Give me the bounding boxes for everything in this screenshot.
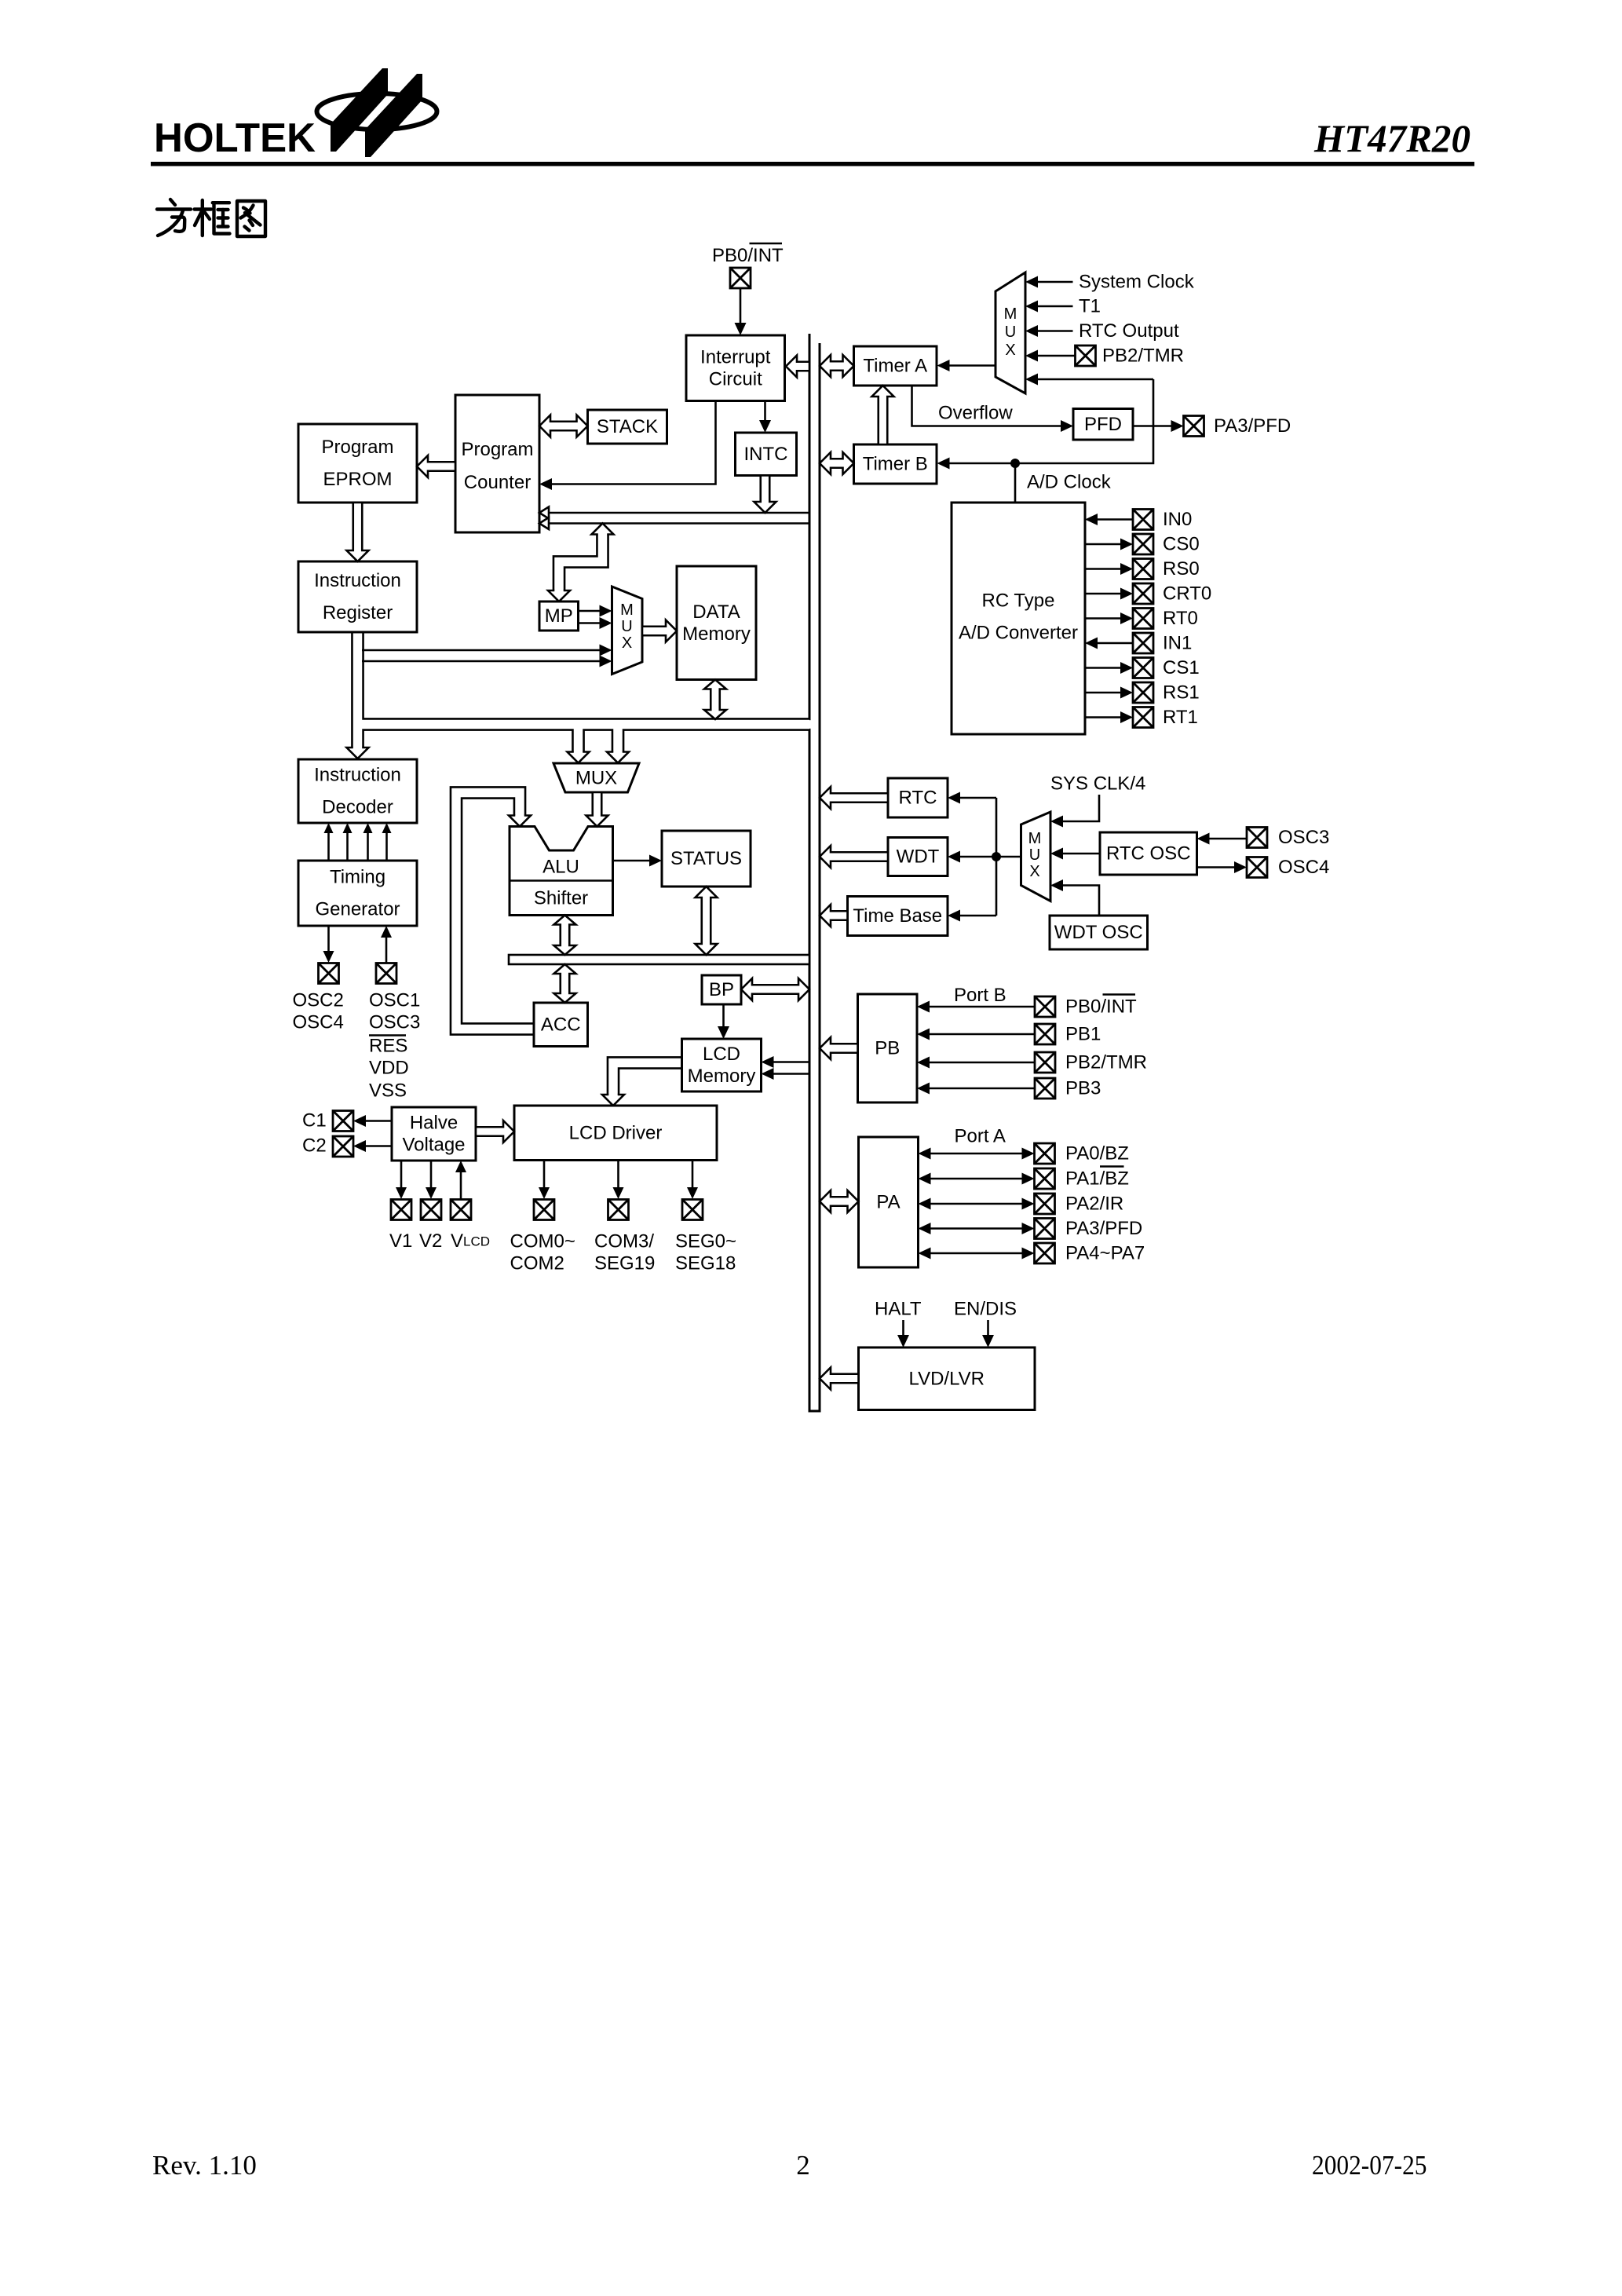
wire clock to Time Base — [948, 910, 996, 922]
wire T1 to mux — [1025, 301, 1073, 313]
wire LCD driver to COM0-COM2 pad — [539, 1161, 550, 1200]
wire halve voltage to C2 pad — [353, 1140, 392, 1152]
block LCD Driver — [514, 1106, 717, 1161]
wire PB2/TMR pad to PB — [917, 1057, 1035, 1069]
title 方框图 — [157, 199, 265, 236]
svg-text:PA: PA — [876, 1192, 900, 1213]
block RC Type A/D Converter — [952, 503, 1085, 734]
ALU and Shifter — [510, 827, 613, 916]
arrowhead line B at Program Counter — [539, 517, 549, 529]
arrow Program Counter to STACK — [539, 415, 588, 437]
svg-text:OSC3: OSC3 — [369, 1012, 420, 1033]
arrow WDT to bus — [820, 846, 888, 868]
pad IN1 — [1133, 633, 1153, 653]
wire RTC OSC to OSC4 pad — [1197, 861, 1248, 873]
svg-text:RS0: RS0 — [1163, 558, 1200, 579]
svg-text:LVD/LVR: LVD/LVR — [909, 1368, 985, 1389]
bus vertical left line — [809, 334, 811, 1412]
svg-text:VLCD: VLCD — [451, 1230, 490, 1252]
wire MP to mux input 1 — [579, 605, 612, 617]
header rule — [151, 162, 1474, 166]
block port B register PB — [858, 994, 918, 1102]
wire A/D converter to RS1 pad — [1085, 687, 1133, 699]
svg-text:STATUS: STATUS — [670, 848, 742, 869]
wire line B to MP — [548, 524, 614, 602]
svg-text:PB: PB — [875, 1038, 900, 1059]
arrow Interrupt Circuit to bus — [786, 356, 809, 378]
svg-text:Timer A: Timer A — [863, 356, 927, 377]
HOLTEK logo bolt 1 — [331, 68, 388, 152]
arrow bus to Timer A — [820, 355, 854, 377]
block Instruction Register — [298, 561, 417, 632]
pad COM0-COM2 — [534, 1200, 554, 1220]
arrowhead line A at Program Counter — [539, 507, 549, 519]
pad RS1 — [1133, 682, 1153, 703]
svg-text:MUX: MUX — [575, 768, 617, 789]
svg-text:OSC4: OSC4 — [1278, 857, 1329, 878]
svg-text:INTC: INTC — [744, 444, 788, 465]
svg-text:CS1: CS1 — [1163, 657, 1200, 678]
wire OSC3 pad to RTC OSC — [1197, 833, 1248, 845]
wire PB0/INT pad to PB — [917, 1001, 1035, 1013]
internal data bus bar — [509, 955, 809, 964]
wire A/D converter to RT0 pad — [1085, 612, 1133, 624]
svg-text:V1: V1 — [389, 1230, 412, 1252]
pad RT0 — [1133, 609, 1153, 629]
wire PB2/TMR pad to mux — [1025, 350, 1076, 362]
svg-text:COM2: COM2 — [510, 1253, 564, 1274]
pad PB2/TMR — [1076, 345, 1096, 366]
wire clock node vertical — [995, 798, 998, 916]
block LCD Memory — [682, 1039, 762, 1091]
label PA1/BZ — [1065, 1167, 1129, 1190]
block Interrupt Circuit — [686, 335, 785, 401]
svg-text:PA1/BZ: PA1/BZ — [1065, 1168, 1129, 1190]
wire WDT OSC to mux — [1050, 879, 1099, 916]
svg-text:Rev. 1.10: Rev. 1.10 — [152, 2150, 257, 2181]
svg-text:Program: Program — [461, 439, 533, 460]
svg-text:PFD: PFD — [1084, 414, 1122, 435]
wire A/D converter to CRT0 pad — [1085, 588, 1133, 600]
svg-text:X: X — [1005, 342, 1015, 359]
arrow mux to DATA Memory — [642, 620, 677, 642]
svg-text:Memory: Memory — [688, 1066, 756, 1087]
wire bus to LCD Memory input 2 — [762, 1068, 810, 1080]
block port A register PA — [859, 1137, 919, 1267]
mux MP (data memory address) — [612, 587, 643, 675]
svg-text:OSC3: OSC3 — [1278, 827, 1329, 848]
block MP — [539, 601, 579, 631]
arrow INTC to line A — [754, 476, 776, 514]
svg-text:U: U — [621, 618, 632, 635]
svg-text:PA3/PFD: PA3/PFD — [1214, 415, 1291, 437]
svg-text:RES: RES — [369, 1036, 407, 1057]
block ACC — [534, 1003, 588, 1047]
svg-text:Circuit: Circuit — [709, 368, 762, 389]
svg-text:RC Type: RC Type — [982, 590, 1055, 612]
arrow Halve Voltage to LCD Driver — [476, 1121, 514, 1143]
svg-text:SEG0~: SEG0~ — [675, 1231, 736, 1252]
block STATUS — [662, 831, 751, 887]
wire timer input feedback to mux — [1025, 374, 1153, 386]
svg-text:RTC OSC: RTC OSC — [1106, 843, 1191, 865]
label PB0/INT — [1065, 995, 1137, 1018]
arrow DATA Memory to internal wire — [704, 680, 726, 720]
arrow PB to bus — [820, 1037, 858, 1059]
HOLTEK logo ellipse — [317, 93, 437, 130]
svg-text:DATA: DATA — [692, 601, 740, 623]
wire OSC1 pad to timing generator — [381, 926, 392, 963]
wire instruction register to decoder and MUX and bus — [347, 632, 810, 763]
arrow BP to bus — [741, 978, 809, 1000]
svg-text:Timing: Timing — [330, 867, 385, 888]
pad PA0/BZ — [1035, 1143, 1055, 1164]
svg-text:SYS CLK/4: SYS CLK/4 — [1050, 773, 1145, 795]
pad PA4~PA7 — [1035, 1243, 1055, 1263]
svg-text:U: U — [1005, 324, 1016, 341]
svg-text:U: U — [1029, 846, 1040, 864]
svg-text:PA3/PFD: PA3/PFD — [1065, 1218, 1142, 1239]
wire mux output to clock node — [996, 856, 1021, 858]
wire timing generator to OSC2 pad — [323, 926, 334, 963]
pad C1 — [333, 1111, 353, 1132]
wire instruction register to MP mux input 2 — [362, 656, 612, 667]
svg-text:M: M — [1028, 830, 1042, 847]
wire PA to PA3/PFD pad — [919, 1223, 1035, 1234]
block RTC — [888, 778, 948, 817]
svg-text:Register: Register — [323, 602, 393, 623]
svg-text:PA4~PA7: PA4~PA7 — [1065, 1243, 1145, 1264]
svg-text:RS1: RS1 — [1163, 682, 1200, 704]
pad PB0/INT top — [730, 268, 751, 288]
svg-text:CS0: CS0 — [1163, 534, 1200, 555]
wire feedback to Timer B — [937, 379, 1154, 470]
wire timing generator to instruction decoder 3 — [363, 823, 373, 861]
block STACK — [588, 410, 667, 444]
wire timing generator to instruction decoder 2 — [343, 823, 353, 861]
wire VLCD pad to halve voltage — [455, 1161, 466, 1200]
svg-text:Port B: Port B — [954, 985, 1006, 1006]
pad PB2/TMR — [1035, 1052, 1055, 1073]
mux central (to ALU) — [553, 763, 639, 792]
svg-text:Port A: Port A — [955, 1126, 1006, 1147]
svg-text:EN/DIS: EN/DIS — [954, 1299, 1017, 1320]
arrow RTC to bus — [820, 787, 888, 809]
wire timing generator to instruction decoder 1 — [324, 823, 334, 861]
svg-text:X: X — [622, 634, 632, 652]
wire Interrupt Circuit to INTC — [759, 401, 771, 433]
wire halve voltage to V2 pad — [426, 1161, 437, 1199]
arrow Time Base to bus — [820, 905, 848, 927]
svg-text:PB3: PB3 — [1065, 1078, 1101, 1099]
wire A/D converter to CS1 pad — [1085, 662, 1133, 674]
bus vertical right line — [819, 343, 821, 1412]
arrow PA to bus — [820, 1190, 859, 1212]
wire A/D clock to converter — [1014, 463, 1017, 503]
svg-text:Instruction: Instruction — [314, 765, 401, 786]
wire halve voltage to C1 pad — [353, 1115, 392, 1127]
pad COM3/SEG19 — [608, 1200, 629, 1220]
wire Timer A overflow to PFD — [912, 386, 1074, 432]
wire bus to LCD Memory input 1 — [762, 1056, 810, 1068]
wire PB1 pad to PB — [917, 1029, 1035, 1040]
svg-text:SEG19: SEG19 — [594, 1253, 655, 1274]
block Timer A — [854, 346, 937, 386]
svg-text:Time Base: Time Base — [853, 905, 942, 927]
arrow LVD/LVR to bus — [820, 1368, 859, 1390]
arrow Program Counter to Program EPROM — [417, 455, 455, 477]
svg-text:PB2/TMR: PB2/TMR — [1102, 345, 1184, 367]
label RES — [369, 1036, 407, 1057]
wire ACC to ALU feedback — [456, 793, 533, 1029]
svg-text:Halve: Halve — [410, 1113, 458, 1134]
pad PB1 — [1035, 1024, 1055, 1044]
wire clock to WDT — [948, 851, 996, 863]
bus bottom cap — [809, 1410, 821, 1413]
svg-text:System Clock: System Clock — [1079, 272, 1195, 293]
arrow Shifter to data bus bar — [554, 916, 576, 956]
svg-text:HALT: HALT — [875, 1299, 922, 1320]
pad PA1/BZ — [1035, 1168, 1055, 1189]
wire LCD driver to COM3/SEG19 pad — [613, 1161, 624, 1200]
svg-text:C2: C2 — [302, 1135, 327, 1157]
pad PA3/PFD — [1035, 1219, 1055, 1239]
pad CS0 — [1133, 534, 1153, 554]
arrow EPROM to Instruction Register — [347, 503, 369, 561]
block WDT — [888, 838, 948, 876]
wire mux to Timer A — [937, 360, 996, 371]
pad OSC2 — [319, 963, 339, 984]
svg-text:Generator: Generator — [315, 899, 400, 920]
svg-text:2: 2 — [796, 2150, 810, 2181]
wire LCD driver to SEG0-SEG18 pad — [687, 1161, 698, 1200]
block Time Base — [848, 897, 948, 936]
svg-text:VDD: VDD — [369, 1058, 409, 1079]
wire BP to LCD Memory — [718, 1004, 729, 1039]
wire A/D converter to CS0 pad — [1085, 539, 1133, 550]
svg-text:RTC Output: RTC Output — [1079, 320, 1179, 342]
svg-text:Interrupt: Interrupt — [700, 346, 771, 367]
wire IN0 pad to A/D converter — [1085, 514, 1133, 525]
mux RTC/WDT clock source — [1021, 812, 1051, 901]
svg-text:A/D Clock: A/D Clock — [1027, 472, 1112, 493]
arrow Timer B to Timer A — [872, 386, 894, 444]
pad SEG0-SEG18 — [682, 1200, 703, 1220]
pad PA3/PFD — [1184, 416, 1204, 437]
pad PB0/INT — [1035, 996, 1055, 1017]
svg-text:T1: T1 — [1079, 296, 1101, 317]
svg-text:HOLTEK: HOLTEK — [154, 115, 316, 161]
svg-text:COM3/: COM3/ — [594, 1231, 654, 1252]
wire IN1 pad to A/D converter — [1085, 638, 1133, 649]
block Timing Generator — [298, 861, 417, 926]
wire PA to PA2/IR pad — [919, 1198, 1035, 1210]
wire clock to RTC — [948, 792, 996, 804]
pad C2 — [333, 1136, 353, 1157]
wire halve voltage to V1 pad — [396, 1161, 407, 1199]
wire A/D converter to RS0 pad — [1085, 563, 1133, 575]
svg-text:Memory: Memory — [682, 623, 751, 645]
wire PA to PA4~PA7 pad — [919, 1248, 1035, 1260]
wire RTC output to mux — [1025, 325, 1073, 337]
pad PB3 — [1035, 1078, 1055, 1099]
svg-text:Shifter: Shifter — [534, 888, 588, 909]
wire ALU to STATUS — [613, 855, 663, 867]
arrow data bus bar to ACC — [554, 964, 576, 1003]
svg-text:Program: Program — [321, 437, 393, 458]
wire EN/DIS to LVD/LVR — [982, 1320, 994, 1347]
svg-text:ALU: ALU — [542, 857, 579, 878]
svg-text:SEG18: SEG18 — [675, 1253, 736, 1274]
svg-text:Instruction: Instruction — [314, 570, 401, 591]
block Timer B — [854, 444, 937, 484]
arrow bus to Timer B — [820, 452, 854, 474]
svg-text:RT0: RT0 — [1163, 608, 1198, 629]
svg-text:PB2/TMR: PB2/TMR — [1065, 1052, 1147, 1073]
wire PB0/INT pad to Interrupt Circuit — [735, 288, 747, 336]
svg-text:IN1: IN1 — [1163, 633, 1192, 654]
pad RS0 — [1133, 559, 1153, 579]
pad OSC3 — [1247, 828, 1267, 848]
svg-text:OSC4: OSC4 — [293, 1012, 344, 1033]
label PB0/INT top — [712, 243, 784, 266]
wire A/D converter to RT1 pad — [1085, 711, 1133, 723]
wire MP to mux input 2 — [579, 617, 612, 629]
HOLTEK logo bolt 2 — [365, 74, 422, 157]
pad PA2/IR — [1035, 1194, 1055, 1214]
block Instruction Decoder — [298, 759, 417, 823]
svg-text:A/D Converter: A/D Converter — [959, 623, 1078, 644]
svg-text:M: M — [620, 601, 634, 619]
junction dot clock node — [992, 852, 1001, 861]
junction dot A/D clock — [1010, 459, 1020, 468]
svg-text:Voltage: Voltage — [402, 1135, 465, 1156]
svg-text:Decoder: Decoder — [322, 797, 393, 818]
wire PB3 pad to PB — [917, 1083, 1035, 1095]
pad V2 — [421, 1200, 441, 1220]
block DATA Memory — [677, 566, 756, 680]
svg-text:MP: MP — [545, 605, 573, 627]
svg-text:WDT OSC: WDT OSC — [1054, 922, 1143, 943]
svg-text:IN0: IN0 — [1163, 509, 1192, 530]
svg-text:PB1: PB1 — [1065, 1024, 1101, 1045]
svg-text:X: X — [1029, 863, 1039, 880]
pad CS1 — [1133, 658, 1153, 678]
pad V1 — [391, 1200, 411, 1220]
block INTC — [736, 433, 797, 476]
svg-text:LCD Driver: LCD Driver — [569, 1122, 663, 1143]
svg-text:VSS: VSS — [369, 1080, 407, 1102]
svg-text:M: M — [1004, 305, 1017, 323]
wire HALT to LVD/LVR — [897, 1320, 909, 1347]
wire line A (bus to Program Counter) — [539, 512, 809, 514]
wire SYS CLK/4 to mux — [1050, 795, 1099, 828]
svg-text:RT1: RT1 — [1163, 707, 1198, 728]
svg-text:C1: C1 — [302, 1110, 327, 1132]
wire timing generator to instruction decoder 4 — [382, 823, 392, 861]
mux timer clock source — [995, 272, 1025, 393]
wire PFD to PA3/PFD pad — [1133, 420, 1184, 432]
wire channel opening into bus — [808, 720, 818, 729]
block BP — [702, 975, 741, 1004]
pad CRT0 — [1133, 583, 1153, 604]
svg-text:LCD: LCD — [703, 1044, 740, 1065]
svg-text:PB0/INT: PB0/INT — [712, 245, 784, 266]
wire PA to PA1/BZ pad — [919, 1173, 1035, 1185]
svg-text:EPROM: EPROM — [323, 469, 392, 490]
pad RT1 — [1133, 707, 1153, 728]
block RTC OSC — [1100, 832, 1197, 875]
block Halve Voltage — [392, 1107, 476, 1161]
wire Interrupt Circuit to Program Counter — [539, 401, 716, 491]
pad OSC4 — [1247, 857, 1267, 878]
svg-text:V2: V2 — [419, 1230, 442, 1252]
svg-text:ACC: ACC — [541, 1014, 581, 1035]
wire RTC OSC to mux — [1050, 848, 1100, 860]
svg-text:Overflow: Overflow — [938, 403, 1013, 424]
svg-text:Counter: Counter — [464, 472, 531, 493]
pad IN0 — [1133, 510, 1153, 530]
svg-text:PA0/BZ: PA0/BZ — [1065, 1143, 1129, 1164]
arrow STATUS to data bus bar — [696, 887, 718, 955]
svg-text:HT47R20: HT47R20 — [1313, 116, 1470, 160]
wire line B (bus to Program Counter) — [539, 522, 809, 525]
wire PA to PA0/BZ pad — [919, 1148, 1035, 1160]
wire instruction register to MP mux input 1 — [362, 645, 612, 656]
block PFD — [1073, 409, 1133, 441]
block LVD/LVR — [859, 1347, 1036, 1410]
block Program EPROM — [298, 424, 417, 503]
svg-text:OSC1: OSC1 — [369, 990, 420, 1011]
svg-text:BP: BP — [709, 979, 734, 1000]
svg-text:OSC2: OSC2 — [293, 990, 344, 1011]
svg-text:CRT0: CRT0 — [1163, 583, 1211, 605]
svg-text:COM0~: COM0~ — [510, 1231, 575, 1252]
svg-text:PB0/INT: PB0/INT — [1065, 996, 1137, 1018]
wire LCD Memory to LCD Driver — [602, 1063, 683, 1106]
wire system clock to mux — [1025, 276, 1073, 288]
svg-text:RTC: RTC — [899, 788, 937, 809]
block Program Counter — [455, 395, 539, 532]
svg-text:2002-07-25: 2002-07-25 — [1312, 2150, 1427, 2181]
pad VLCD — [451, 1200, 471, 1220]
svg-text:Timer B: Timer B — [863, 454, 928, 475]
pad OSC1 — [376, 963, 396, 984]
svg-text:PA2/IR: PA2/IR — [1065, 1194, 1123, 1215]
arrow mux to ALU — [586, 792, 608, 827]
svg-text:STACK: STACK — [597, 416, 658, 437]
block WDT OSC — [1050, 916, 1148, 949]
svg-text:WDT: WDT — [897, 846, 940, 868]
